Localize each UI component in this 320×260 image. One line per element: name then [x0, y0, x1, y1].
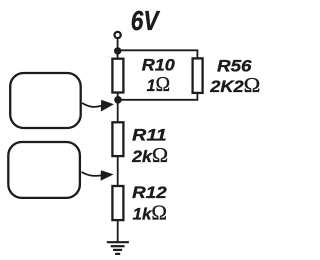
svg-text:2kΩ: 2kΩ [131, 143, 168, 167]
svg-text:R12: R12 [132, 183, 167, 202]
svg-text:1Ω: 1Ω [147, 72, 171, 96]
svg-text:2K2Ω: 2K2Ω [209, 73, 260, 97]
svg-text:6V: 6V [131, 5, 161, 36]
svg-text:R11: R11 [132, 125, 167, 144]
svg-text:1kΩ: 1kΩ [133, 201, 168, 225]
